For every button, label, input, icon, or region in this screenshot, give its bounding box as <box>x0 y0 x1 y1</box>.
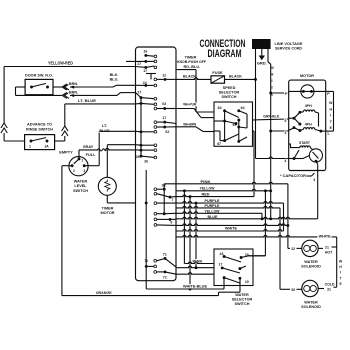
wire RD-BLU to speed selector <box>176 70 214 112</box>
timer contact 71 <box>157 252 176 267</box>
timer contact 17 right <box>154 116 176 124</box>
svg-text:SELECTOR: SELECTOR <box>219 90 240 94</box>
svg-text:1: 1 <box>81 159 83 163</box>
svg-text:WHITE-BLUE: WHITE-BLUE <box>183 284 207 288</box>
svg-text:I: I <box>330 114 331 118</box>
svg-text:GRN-BLK: GRN-BLK <box>263 115 279 119</box>
wire door switch loop <box>16 87 63 95</box>
svg-text:72: 72 <box>163 276 167 280</box>
water selector switch S5 <box>214 249 253 286</box>
timer internal bus lower <box>145 170 148 266</box>
timer contact 62 <box>154 126 176 135</box>
svg-text:5: 5 <box>284 119 286 123</box>
svg-text:BRN.: BRN. <box>69 82 78 86</box>
svg-text:WH-PUR: WH-PUR <box>183 102 196 106</box>
ground symbol GRD arrow <box>257 49 267 66</box>
svg-text:WATER: WATER <box>235 293 249 297</box>
wire GRAY from terminal 1 <box>79 145 136 159</box>
motor pin P left <box>285 92 288 96</box>
svg-text:12: 12 <box>162 74 166 78</box>
svg-text:RD.-BLU.: RD.-BLU. <box>184 65 201 69</box>
svg-text:BLACK: BLACK <box>229 74 242 78</box>
svg-text:SWITCH: SWITCH <box>222 95 237 99</box>
wire YELLOW row 2 <box>176 209 263 220</box>
motor protector <box>289 85 326 98</box>
timer contact 27 lower with bus <box>136 91 157 157</box>
svg-text:BRN.: BRN. <box>69 91 78 95</box>
wire YELLOW row <box>176 187 271 193</box>
svg-text:KNOB-PUSH OFF: KNOB-PUSH OFF <box>177 60 207 64</box>
svg-text:22: 22 <box>291 247 295 251</box>
svg-text:FULL: FULL <box>86 153 96 157</box>
connector chevrons BRN pair <box>62 84 69 98</box>
speed selector switch S4 <box>214 86 253 147</box>
svg-text:BLACK: BLACK <box>183 74 196 78</box>
wire BLACK plug to motor pin 4 <box>256 79 289 158</box>
svg-text:17: 17 <box>162 116 166 120</box>
motor start winding <box>289 141 313 149</box>
svg-text:HOT: HOT <box>325 251 333 255</box>
svg-text:4: 4 <box>284 159 286 163</box>
motor start contact pin 4 <box>284 150 309 163</box>
svg-text:27: 27 <box>137 62 141 66</box>
timer contact row 131 <box>136 130 157 133</box>
svg-text:ORANGE: ORANGE <box>96 291 112 295</box>
label water level switch <box>73 180 88 193</box>
svg-text:WATER: WATER <box>304 301 318 305</box>
label timer knob-push off <box>177 56 207 70</box>
timer contact 63 <box>154 102 176 110</box>
svg-text:TIMER: TIMER <box>102 207 114 211</box>
svg-text:DOOR SW. N.O.: DOOR SW. N.O. <box>25 73 53 78</box>
svg-text:SERVICE CORD: SERVICE CORD <box>275 46 302 51</box>
svg-text:21: 21 <box>325 246 329 250</box>
wire rinse switch left <box>4 140 25 142</box>
svg-text:I: I <box>271 79 272 83</box>
svg-text:MOTOR: MOTOR <box>100 211 114 215</box>
svg-text:START: START <box>299 141 311 145</box>
svg-text:MOTOR: MOTOR <box>300 73 314 78</box>
wire ORANGE bottom <box>62 291 219 295</box>
svg-text:YELLOW-RED: YELLOW-RED <box>48 60 73 65</box>
wire PINK to water selector <box>184 259 214 290</box>
wire GRN-BLK to motor pin 5 <box>253 115 289 120</box>
svg-text:LT.: LT. <box>102 124 107 128</box>
svg-text:17: 17 <box>143 69 147 73</box>
timer contact row 67 <box>136 66 157 69</box>
wire BRN upper <box>69 82 136 89</box>
svg-text:3: 3 <box>284 131 286 135</box>
door switch S1 DOOR SW. N.O. <box>25 73 53 95</box>
label water selector switch <box>232 293 253 306</box>
svg-text:27: 27 <box>137 91 141 95</box>
wire speed selector to capacitor bus <box>253 131 255 197</box>
svg-text:4PH: 4PH <box>305 122 312 126</box>
wire water selector 18 up <box>249 255 266 257</box>
svg-text:63: 63 <box>162 102 166 106</box>
wire row 267 to water selector <box>176 266 214 268</box>
wire RED row <box>176 192 254 196</box>
svg-text:3: 3 <box>313 178 315 182</box>
svg-text:19: 19 <box>245 280 249 284</box>
svg-text:RINSE SWITCH: RINSE SWITCH <box>26 127 53 132</box>
timer contact 26 rows <box>136 149 157 164</box>
svg-text:BLU.: BLU. <box>110 78 119 82</box>
water solenoid hot L1 <box>302 240 318 256</box>
svg-text:SWITCH: SWITCH <box>235 302 250 306</box>
timer contact row 104 <box>136 102 157 106</box>
motor M1 box <box>289 73 326 171</box>
svg-text:WHITE: WHITE <box>225 226 237 230</box>
svg-text:I: I <box>340 271 341 275</box>
timer contact 16 <box>143 50 156 58</box>
svg-text:YELLOW: YELLOW <box>200 187 215 191</box>
svg-text:71: 71 <box>163 252 167 256</box>
timer contact 33 <box>154 183 166 215</box>
svg-text:SPEED: SPEED <box>223 86 236 90</box>
svg-text:26: 26 <box>144 159 148 163</box>
svg-text:LEVEL: LEVEL <box>74 184 87 188</box>
svg-text:GRD.: GRD. <box>257 61 267 66</box>
svg-text:WH-BRN: WH-BRN <box>183 123 196 127</box>
svg-text:PURPLE: PURPLE <box>205 199 220 203</box>
svg-text:4PH: 4PH <box>305 104 312 108</box>
label timer motor <box>100 207 114 216</box>
wire branch verticals to water selector <box>183 189 198 289</box>
wire solenoid cold pins <box>280 283 335 292</box>
water level switch S3 <box>59 150 88 176</box>
timer contact row 145 <box>136 144 157 147</box>
svg-text:1: 1 <box>29 144 31 148</box>
label cold solenoid <box>301 301 321 310</box>
svg-text:RED: RED <box>202 192 210 196</box>
svg-text:SOLENOID: SOLENOID <box>301 305 321 309</box>
label line voltage service cord <box>275 41 303 50</box>
wire BLACK fuse row <box>176 74 257 80</box>
wire water selector 18 feed <box>249 191 265 256</box>
wire FULL terminal 3 <box>84 131 99 165</box>
timer motor M2 <box>98 177 116 195</box>
svg-text:TIMER: TIMER <box>185 56 197 60</box>
svg-text:2: 2 <box>73 169 75 173</box>
wire WHITE row <box>176 226 284 231</box>
label BLK BLU <box>110 73 119 81</box>
svg-text:67: 67 <box>217 142 221 146</box>
wire rinse switch right <box>55 140 65 142</box>
svg-text:FUSE: FUSE <box>212 71 223 75</box>
wire PURPLE row 2 <box>176 204 280 289</box>
svg-text:31: 31 <box>327 288 331 292</box>
wire solenoid hot right 21 <box>318 246 333 255</box>
wire PINK row <box>164 180 302 251</box>
timer contact 7 <box>154 192 176 202</box>
svg-text:BLK.: BLK. <box>110 73 119 77</box>
svg-text:SWITCH: SWITCH <box>73 189 88 193</box>
connector chevrons rinse right <box>62 126 68 141</box>
label hot solenoid <box>301 260 321 269</box>
timer contact 70 <box>144 259 156 273</box>
wire BLUE capacitor row <box>176 164 318 220</box>
wire WHITE solenoid bus <box>176 235 337 288</box>
wire LT. BLUE <box>65 98 136 126</box>
timer contact 27 upper <box>126 60 157 66</box>
svg-text:SOLENOID: SOLENOID <box>301 265 321 269</box>
fuse F1 <box>211 71 225 83</box>
svg-text:17: 17 <box>219 262 223 266</box>
svg-text:1A: 1A <box>44 144 49 148</box>
svg-text:GRAY: GRAY <box>83 145 94 149</box>
motor main winding 4PH lower <box>300 122 326 132</box>
wire YELLOW-RED top <box>4 60 135 123</box>
wire timer motor return <box>107 195 135 203</box>
timer T1 box <box>136 47 177 281</box>
connector chevrons left edge <box>1 123 7 141</box>
advance to rinse switch S2 <box>25 122 55 150</box>
wire WH-BRN <box>176 123 214 132</box>
timer contact 72 <box>157 270 176 279</box>
wire timer motor feed <box>107 145 135 178</box>
wire LT. BLUE second <box>99 124 135 133</box>
wire WHITE-BLUE <box>183 278 224 289</box>
svg-text:16: 16 <box>143 50 147 54</box>
svg-text:COLD: COLD <box>325 283 335 287</box>
svg-text:SELECTOR: SELECTOR <box>232 297 253 301</box>
line voltage service cord plug J1 <box>252 39 271 55</box>
svg-text:EMPTY: EMPTY <box>59 150 73 155</box>
svg-text:WHITE: WHITE <box>319 235 332 239</box>
wire row 274 to water selector <box>176 273 214 275</box>
label capacitor <box>280 173 315 182</box>
svg-text:WATER: WATER <box>74 180 88 184</box>
wire WH-PUR <box>176 102 214 117</box>
svg-text:9: 9 <box>170 221 172 225</box>
motor speed contacts <box>289 111 302 132</box>
motor pin L <box>326 91 334 135</box>
svg-text:WATER: WATER <box>304 260 318 264</box>
svg-text:* CAPACITOR: * CAPACITOR <box>280 174 306 178</box>
motor pin P right <box>326 91 334 96</box>
wire water level sw terminal 2 to bottom <box>62 166 72 296</box>
svg-text:LT. BLUE: LT. BLUE <box>78 98 96 103</box>
svg-text:70: 70 <box>144 259 148 263</box>
svg-text:26: 26 <box>136 155 140 159</box>
svg-text:64: 64 <box>218 106 222 110</box>
timer contact rows 203-225 <box>154 202 176 226</box>
svg-text:DIAGRAM: DIAGRAM <box>208 48 242 60</box>
timer contact 17/12 bracket <box>143 69 176 81</box>
svg-text:7: 7 <box>171 198 173 202</box>
water solenoid cold L2 <box>302 280 318 296</box>
svg-text:62: 62 <box>165 130 169 134</box>
wire BRN lower <box>69 91 136 98</box>
motor centrifugal switch <box>309 149 322 165</box>
motor main winding 4PH upper <box>300 104 319 127</box>
title CONNECTION DIAGRAM <box>200 38 246 60</box>
wire WHITE from service cord <box>256 55 289 219</box>
wire PURPLE row 1 <box>176 199 284 231</box>
svg-text:64: 64 <box>241 106 245 110</box>
wire orange to pin 19 <box>219 278 241 292</box>
svg-text:43: 43 <box>220 252 224 256</box>
wire timer pin 70 down <box>146 266 224 289</box>
svg-text:3: 3 <box>83 169 85 173</box>
wire row 225 <box>176 224 289 227</box>
svg-text:30: 30 <box>291 288 295 292</box>
timer contact 24 <box>136 81 157 87</box>
